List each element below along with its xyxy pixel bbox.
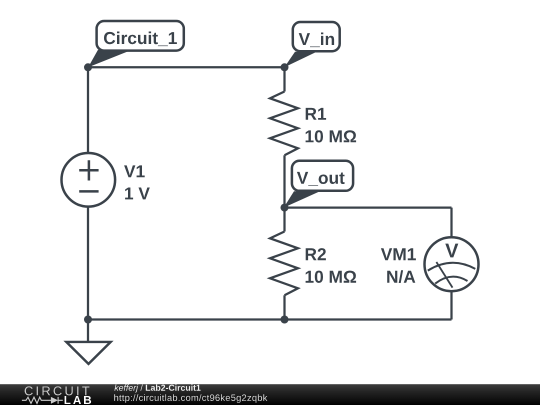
wire V1 bottom down to node E xyxy=(87,206,89,319)
voltmeter V marking xyxy=(445,244,458,258)
node label V_in box xyxy=(293,22,340,51)
label R1 xyxy=(306,108,326,120)
label R2 xyxy=(306,248,326,260)
node label V_out callout tail xyxy=(284,191,320,207)
voltmeter upper scale arc xyxy=(428,263,476,271)
voltage source V1 xyxy=(62,153,116,207)
value N/A xyxy=(387,270,415,283)
node label Circuit_1 box xyxy=(97,21,184,51)
node label V_out text xyxy=(297,172,345,186)
node C junction dot xyxy=(281,204,289,212)
voltmeter needle xyxy=(436,262,452,288)
node D junction dot xyxy=(281,316,289,324)
CircuitLab logo CIRCUIT text xyxy=(25,386,90,395)
node label V_in text xyxy=(299,33,334,48)
label VM1 xyxy=(381,248,416,260)
node A junction dot xyxy=(84,63,92,71)
wire R2 bottom to node D xyxy=(283,295,285,319)
wire voltmeter branch down to VM1 top xyxy=(450,208,452,238)
wire R1 bottom to node C xyxy=(283,155,285,207)
node label V_out box xyxy=(292,161,353,191)
wire node C down to R2 top xyxy=(283,208,285,232)
footer title line xyxy=(114,384,200,392)
node label V_in callout tail xyxy=(284,52,316,68)
ground xyxy=(66,342,110,364)
footer url line xyxy=(114,394,267,403)
wire ground stem xyxy=(87,320,89,342)
V1 plus sign xyxy=(79,160,98,180)
footer bar xyxy=(0,384,540,405)
value 10 MΩ for R1 xyxy=(306,130,357,142)
wire bottom horizontal node E to voltmeter bottom corner xyxy=(88,318,452,320)
CircuitLab logo resistor-diode line xyxy=(22,397,63,404)
wire top horizontal node A to node B xyxy=(88,66,285,68)
node label Circuit_1 text xyxy=(104,32,177,47)
wire node C horizontal to voltmeter branch xyxy=(285,206,452,208)
voltmeter lower scale arc xyxy=(435,277,467,284)
value 1 V xyxy=(125,188,150,200)
CircuitLab logo LAB text xyxy=(65,396,92,404)
resistor R2 xyxy=(270,232,298,296)
value 10 MΩ for R2 xyxy=(306,271,357,283)
voltmeter VM1 xyxy=(425,237,479,291)
wire node A down to V1 top xyxy=(87,67,89,153)
resistor R1 xyxy=(270,92,298,156)
node E junction dot xyxy=(84,316,92,324)
label V1 xyxy=(124,165,145,177)
wire VM1 bottom to bottom rail xyxy=(450,291,452,319)
wire node B down to R1 top xyxy=(283,67,285,91)
node B junction dot xyxy=(281,63,289,71)
CircuitLab logo diode triangle xyxy=(51,397,58,404)
V1 minus sign xyxy=(79,190,98,193)
node label Circuit_1 callout tail xyxy=(88,50,132,68)
